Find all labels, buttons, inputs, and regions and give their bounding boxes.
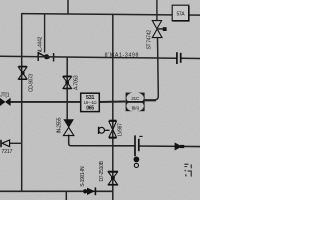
capacitor C1 [177,52,181,64]
surge arrester IN-2555 [63,119,74,135]
meter box 21C/18A [126,92,145,111]
capacitor C2 [135,135,143,156]
wire line D [0,190,113,192]
wire stub below line D [65,191,67,200]
terminal dot and circle below C2 [134,157,140,168]
wire left vertical [21,13,23,191]
scan noise [0,0,200,200]
wire V3 vertical [67,57,112,146]
diode D1 input (bowtie) [0,98,11,106]
wire line F right [113,145,200,148]
contact K1 with junction dot [38,52,53,62]
diode D3 on line D with dot [83,187,95,195]
wire branch to contact [44,14,46,53]
TVS LV987 with terminal [99,120,117,138]
arrow on line F [175,142,185,150]
box 531 [81,93,100,111]
wire V2 main vertical [112,14,114,200]
wire line A [0,56,200,58]
wire top stub [67,0,69,14]
wire line C [10,100,156,102]
box 57A [172,5,189,21]
TVS D7-2510B [108,171,118,185]
TVS A-7053 [63,76,72,88]
marks 3C right edge [184,164,192,177]
diode 7217 with wire [1,140,22,147]
thyristor ST74742 [145,0,167,100]
wire top bus [21,14,200,16]
TVS CD-9073 [18,66,27,79]
